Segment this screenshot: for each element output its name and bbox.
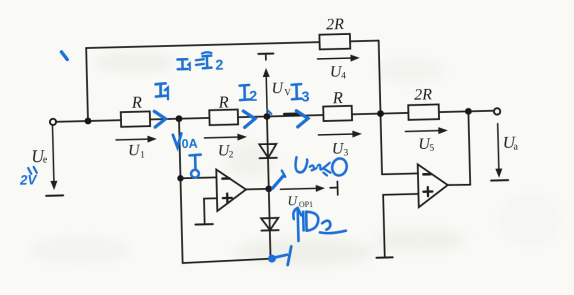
svg-text:e: e (43, 154, 48, 165)
node C (377, 110, 384, 117)
node D (465, 108, 472, 115)
resistor R1 (121, 111, 150, 126)
svg-text:2R: 2R (414, 86, 432, 103)
wire main horizontal line (56, 111, 494, 122)
ground Ue (46, 194, 63, 196)
svg-text:R: R (217, 92, 229, 111)
voltage arrow U2 (204, 136, 238, 139)
wire node A up to feedback (86, 48, 88, 121)
wire OP1 inverting input (180, 176, 216, 179)
wire top feedback right of 2R (350, 40, 379, 43)
annotation U_OP1 < 0 (282, 171, 285, 177)
ground tick for U_OP1 (330, 187, 337, 189)
voltage arrow Ue (down) (53, 125, 54, 181)
current chevron I3 (296, 110, 308, 126)
annotation I1 (156, 83, 169, 99)
voltage arrow U1 (116, 138, 148, 141)
svg-text:a: a (513, 142, 518, 153)
resistor 2R (output) (408, 104, 439, 119)
svg-text:5: 5 (429, 144, 434, 154)
annotation I2 (240, 85, 250, 100)
annotation D2 conducting (293, 207, 346, 241)
svg-text:3: 3 (343, 148, 348, 158)
svg-text:2: 2 (229, 150, 234, 160)
svg-text:4: 4 (341, 71, 346, 81)
svg-text:2R: 2R (326, 16, 344, 33)
node B (175, 115, 182, 122)
wire vertical at node C (feedback corner down to OP2 minus) (379, 41, 382, 175)
svg-text:1: 1 (140, 150, 145, 160)
blue check mark top left (61, 52, 67, 60)
svg-text:R: R (131, 93, 143, 112)
op-amp U1 (OP1) (216, 169, 246, 211)
voltage arrow U5 (405, 130, 439, 133)
voltage arrow Ua (down) (498, 124, 499, 170)
node A (85, 118, 92, 125)
voltage arrow U3 (318, 133, 353, 136)
diode D2 (261, 218, 278, 230)
svg-text:2: 2 (215, 58, 223, 74)
svg-text:2V: 2V (19, 172, 38, 187)
wire OP1 non-inverting input to ground (204, 198, 218, 223)
svg-text:0A: 0A (181, 137, 197, 151)
svg-text:U: U (271, 80, 284, 97)
node Uv junction (263, 113, 270, 120)
annotation I3 (292, 84, 302, 99)
node at OP1 inverting input (177, 175, 184, 182)
wire OP2 inverting input (382, 172, 418, 175)
ground OP2 (376, 256, 392, 258)
svg-text:V: V (284, 87, 291, 97)
wire OP2 output (448, 183, 471, 186)
diode D1 (259, 144, 277, 158)
voltage arrow Uv (up) (265, 75, 268, 112)
blue slash at OP1 output node (272, 176, 283, 188)
ground Ua (491, 179, 508, 181)
current chevron I2 (243, 111, 255, 128)
wire top feedback left of 2R (86, 42, 319, 48)
resistor R3 (323, 106, 352, 121)
annotation 0A with down check (173, 133, 182, 147)
node OP1 output (265, 185, 272, 192)
wire bottom feedback horizontal (183, 259, 272, 263)
voltage arrow U_OP1 (280, 187, 316, 190)
wire node B down to bottom feedback (179, 119, 183, 263)
svg-text:3: 3 (301, 89, 309, 105)
voltage arrow U4 (318, 57, 352, 60)
svg-text:2: 2 (249, 89, 257, 105)
annotation I with circle (virtual ground probe) (190, 155, 202, 178)
current dash I3 on wire (284, 112, 297, 115)
annotation I1=I2 (177, 52, 212, 70)
output terminal (494, 108, 501, 115)
svg-text:U: U (287, 193, 298, 208)
wire diode branch vertical (267, 116, 271, 259)
wire OP2 non-inverting input to ground (383, 194, 420, 257)
wire OP1 output (246, 188, 269, 191)
svg-text:R: R (331, 88, 343, 107)
resistor R2 (209, 110, 238, 126)
op-amp U2 (OP2) (418, 164, 449, 208)
ground reference above Uv (258, 52, 273, 54)
annotation 2V at source (28, 168, 31, 174)
wire node D down (468, 111, 470, 184)
current chevron I1 (154, 111, 165, 127)
ground OP1 (195, 223, 212, 225)
blue tick above Uv node (268, 110, 272, 114)
input terminal (left) (50, 119, 56, 125)
blue node dot bottom with slash (268, 254, 276, 262)
resistor 2R (top feedback) (319, 34, 350, 49)
svg-text:OP1: OP1 (299, 200, 313, 209)
